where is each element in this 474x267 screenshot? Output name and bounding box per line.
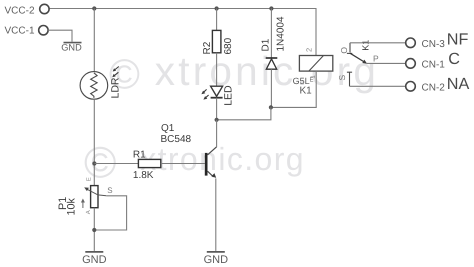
wire collector node to transistor — [216, 120, 218, 147]
wire contact O to CN-3 — [350, 42, 406, 44]
wire wiper loop — [94, 196, 126, 230]
svg-text:NA: NA — [447, 75, 470, 93]
svg-text:10k: 10k — [66, 197, 78, 215]
wire node to R1 — [94, 163, 138, 165]
svg-text:GND: GND — [204, 254, 229, 266]
svg-text:S: S — [107, 186, 112, 195]
svg-text:xtronic.org: xtronic.org — [155, 48, 379, 94]
transistor Q1 BC548 — [161, 123, 217, 178]
svg-text:CN-2: CN-2 — [422, 82, 446, 93]
svg-text:VCC-1: VCC-1 — [5, 25, 35, 36]
svg-text:D1: D1 — [260, 38, 271, 51]
wire top rail to R2 — [216, 9, 218, 31]
ground (input) — [64, 42, 82, 44]
wire R2 to LED — [216, 53, 218, 86]
LED — [201, 85, 234, 106]
terminal CN-3 NF — [406, 38, 416, 48]
junction node D1 anode — [269, 105, 273, 109]
svg-text:P: P — [373, 54, 379, 64]
svg-text:A: A — [85, 210, 92, 214]
diode D1 1N4004 — [260, 16, 286, 69]
svg-text:LDR: LDR — [110, 77, 122, 98]
svg-text:CN-1: CN-1 — [422, 59, 446, 70]
wire LED to collector node — [216, 98, 218, 120]
terminal CN-2 NA — [406, 82, 416, 92]
potentiometer P1 — [57, 177, 113, 215]
junction node LDR / R1 — [92, 161, 96, 165]
svg-text:E: E — [85, 177, 92, 181]
svg-text:G5L: G5L — [293, 76, 310, 86]
svg-text:2: 2 — [304, 48, 313, 52]
relay coil K1 — [293, 48, 333, 97]
svg-text:K1: K1 — [300, 86, 313, 97]
svg-text:O: O — [339, 47, 349, 54]
wire top rail to D1 — [270, 9, 272, 59]
svg-text:K1: K1 — [361, 40, 371, 51]
wire VCC-1 to ground — [48, 30, 72, 42]
wire P1 bottom to ground — [93, 208, 95, 251]
svg-text:xtronic.org: xtronic.org — [140, 141, 305, 177]
wire contact P to CN-1 — [367, 62, 406, 64]
svg-text:C: C — [448, 50, 460, 68]
svg-text:S: S — [337, 75, 347, 81]
resistor R1 — [133, 150, 161, 181]
ground (divider) — [85, 251, 103, 253]
junction node top rail / LDR — [92, 6, 96, 10]
svg-text:1.8K: 1.8K — [133, 170, 154, 181]
svg-text:Q1: Q1 — [161, 123, 175, 134]
wire D1 to node — [270, 69, 272, 107]
relay contact K1 — [337, 40, 379, 87]
ground (emitter) — [207, 251, 225, 253]
junction node collector — [215, 118, 219, 122]
resistor R2 — [202, 30, 234, 54]
junction node R2 top — [215, 6, 219, 10]
wire emitter to ground — [215, 178, 217, 251]
svg-text:VCC-2: VCC-2 — [5, 5, 35, 16]
svg-text:GND: GND — [61, 43, 82, 53]
terminal VCC-1 — [39, 26, 48, 35]
wire LDR to R1 node — [93, 99, 95, 185]
wire relay pin1 to D1 node — [271, 71, 316, 107]
junction node D1 top — [269, 6, 273, 10]
wire R1 to base — [161, 163, 205, 165]
wire top rail to LDR — [93, 9, 95, 72]
wire top rail VCC-2 to relay pin2 — [49, 9, 316, 56]
junction node P1 bottom — [92, 228, 96, 232]
terminal CN-1 C — [406, 59, 416, 69]
svg-text:R2: R2 — [202, 41, 213, 54]
svg-text:GND: GND — [82, 254, 107, 266]
svg-text:LED: LED — [223, 85, 235, 106]
svg-text:R1: R1 — [133, 150, 146, 161]
svg-text:680: 680 — [223, 37, 234, 54]
svg-text:NF: NF — [447, 31, 469, 49]
svg-text:BC548: BC548 — [161, 134, 192, 145]
wire contact S to CN-2 — [350, 85, 406, 87]
terminal VCC-2 — [40, 4, 49, 13]
svg-text:CN-3: CN-3 — [422, 39, 446, 50]
svg-text:1N4004: 1N4004 — [275, 16, 286, 51]
photoresistor LDR — [80, 67, 121, 100]
wire node to collector node — [217, 107, 271, 119]
